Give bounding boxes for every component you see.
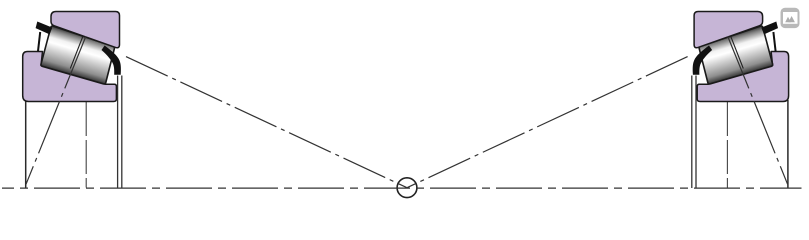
right bearing contact line (steep) [728,37,788,185]
cage section big-end (black quad) right [761,22,778,35]
tapered roller left [41,26,115,84]
double vertical lines inner side right bearing [695,76,697,189]
tapered roller right [699,26,773,84]
right pressure line to centre [407,57,688,188]
left pressure line to centre [126,57,407,188]
shaft face line right [787,100,789,188]
cage arm line right [773,32,775,51]
roller transverse centerline [70,28,86,69]
outer ring (cup) right [694,12,763,48]
cage hook small-end left [102,46,121,75]
pressure centre circle [397,178,417,198]
double vertical lines inner side left bearing [117,76,119,189]
left bearing contact line (steep) [26,37,86,185]
inner ring (cone) right [697,52,788,102]
hidden dashed vertical under left bearing [85,102,87,188]
hidden dashed vertical under right bearing [726,102,728,188]
inner ring (cone) left [23,52,117,102]
roller transverse centerline right [727,28,743,69]
outer ring (cup) left [51,12,120,48]
cage arm line left [38,32,40,51]
axis centreline [2,187,802,189]
cage section big-end (black quad) left [36,22,53,35]
image placeholder icon top-right [781,8,800,28]
shaft face line left [25,100,27,188]
cage hook small-end right [693,46,712,75]
